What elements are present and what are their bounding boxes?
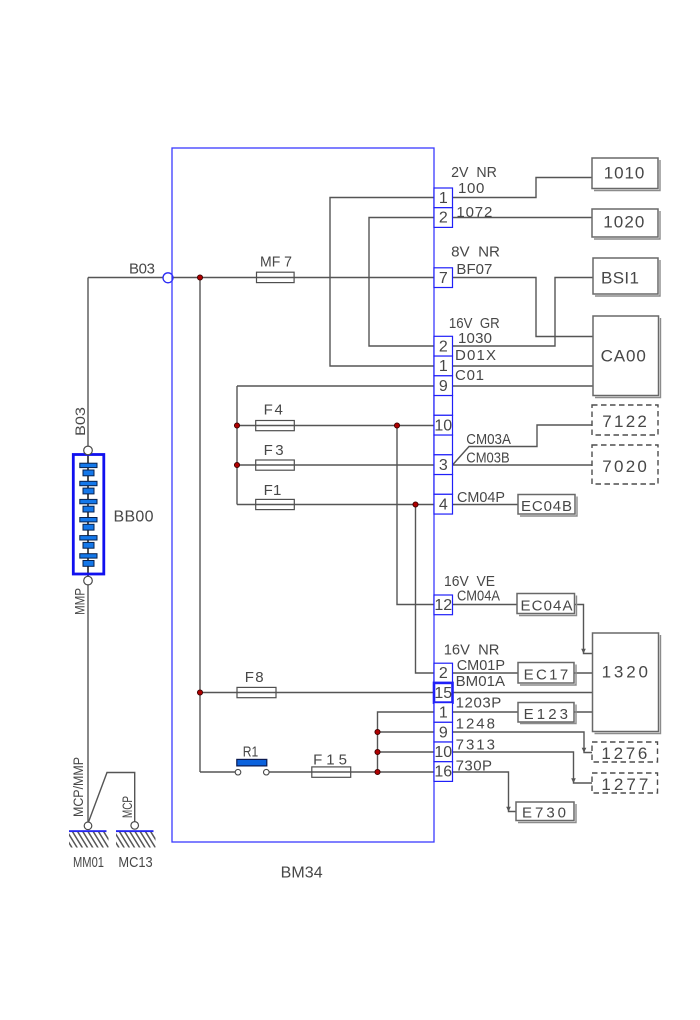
wire C01 left bracket vertical — [236, 386, 238, 505]
svg-text:1030: 1030 — [458, 330, 492, 347]
svg-text:EC04B: EC04B — [521, 498, 572, 515]
pin 9 (1248) — [434, 722, 453, 742]
vertical labels — [70, 407, 135, 818]
svg-text:4: 4 — [439, 497, 448, 514]
svg-text:2: 2 — [439, 338, 448, 355]
ground MM01 terminal — [84, 822, 92, 830]
wire vertical node x200 inside BM34 — [199, 278, 201, 773]
shadow E730 — [518, 804, 576, 823]
svg-text:F4: F4 — [264, 401, 283, 418]
svg-text:730P: 730P — [456, 757, 492, 774]
shadow 1320 — [595, 635, 661, 734]
box EC04A — [517, 594, 575, 614]
wire E123 to 1320 — [574, 711, 593, 713]
svg-text:MCP: MCP — [119, 796, 135, 818]
node BB00 top terminal — [84, 446, 93, 455]
wire EC04A to 1320 — [575, 605, 593, 654]
ground MM01 hatch — [62, 832, 119, 849]
pin 2 (1030) — [434, 336, 453, 356]
svg-text:1010: 1010 — [604, 164, 645, 183]
component BM34 control unit box — [172, 148, 434, 842]
box EC04B — [518, 495, 575, 515]
svg-text:B03: B03 — [72, 407, 88, 436]
fuse MF7 — [257, 272, 295, 282]
wire F1 branch down to pin 2 CM01P — [416, 505, 435, 674]
svg-text:12: 12 — [434, 597, 452, 614]
arrowheads at corner bends — [506, 649, 586, 812]
box CA00 — [593, 316, 659, 396]
box 1276 dashed — [592, 742, 658, 762]
wire 7313 to 1277 — [453, 752, 593, 783]
wire CM04A to EC04A — [453, 604, 518, 606]
wire 100 loop pin1 to D01X — [330, 198, 434, 367]
wire F1 run to pin 4 — [237, 504, 434, 506]
wire CM01P to EC17 — [453, 672, 519, 674]
svg-text:2: 2 — [439, 210, 448, 227]
svg-text:BM01A: BM01A — [456, 673, 505, 690]
fuse F15 — [312, 767, 351, 777]
arrow EC04A to 1320 — [581, 649, 586, 654]
node dot F3 left — [234, 462, 239, 467]
pin empty b — [434, 435, 453, 455]
pin 16 (730P) — [434, 762, 453, 782]
wire BM01A to 1320 — [453, 692, 593, 694]
fuse F1 — [256, 499, 295, 509]
svg-text:MMP: MMP — [72, 588, 88, 615]
svg-text:16: 16 — [434, 764, 452, 781]
box E730 — [516, 802, 574, 821]
shadow E123 — [520, 705, 576, 724]
wire pin1 100 to 1010 — [453, 178, 593, 198]
component BB00 cells — [80, 463, 97, 566]
svg-text:7: 7 — [439, 270, 448, 287]
wire CM03A to 7122 — [453, 425, 593, 465]
pin empty c — [434, 475, 453, 495]
wire F4 run to pin 10 — [237, 425, 434, 427]
svg-text:7313: 7313 — [456, 736, 495, 753]
node dot B03/x200 — [197, 275, 202, 280]
pin 9 (C01) — [434, 376, 453, 396]
equipment labels — [601, 164, 649, 794]
pin 12 (CM04A) — [434, 595, 453, 615]
box 7020 dashed — [592, 445, 658, 484]
node B03 connector circle on BM34 edge — [163, 273, 173, 283]
shadow EC04B — [520, 497, 577, 517]
svg-text:EC04A: EC04A — [521, 597, 573, 614]
box BSI1 — [593, 258, 658, 294]
box 1277 dashed — [592, 773, 658, 793]
svg-text:9: 9 — [439, 378, 448, 395]
svg-text:CM01P: CM01P — [457, 657, 505, 674]
wire C01 to CA00 — [453, 385, 594, 387]
wire 1203P to E123 — [453, 711, 519, 713]
component BB00 internal wire — [87, 450, 89, 578]
box 1320 — [593, 633, 659, 732]
svg-text:15: 15 — [434, 685, 452, 702]
wire EC17 to 1320 — [574, 672, 593, 674]
pin 10 (F4) — [434, 415, 453, 435]
wire pin7 BF07 to CA00 — [453, 278, 594, 337]
wire R1 left lead — [200, 771, 235, 773]
shadow EC17 — [520, 665, 576, 686]
ground MC13 terminal — [131, 822, 139, 830]
wire 730P to E730 — [453, 772, 517, 812]
box EC17 — [518, 663, 574, 684]
svg-text:MCP/MMP: MCP/MMP — [70, 757, 86, 817]
ground MM01 plane — [69, 830, 107, 832]
svg-text:CM04A: CM04A — [457, 588, 500, 605]
svg-text:CM04P: CM04P — [457, 489, 505, 506]
svg-text:2V NR: 2V NR — [451, 164, 497, 181]
svg-text:MC13: MC13 — [118, 854, 152, 871]
arrow 730P to E730 — [506, 807, 511, 812]
svg-text:10: 10 — [434, 417, 452, 434]
svg-text:10: 10 — [434, 744, 452, 761]
wire 1248 to 1276 — [453, 732, 593, 753]
wire 1072 loop pin2 to 1030 — [369, 218, 434, 347]
shadow BSI1 — [595, 260, 660, 296]
ground MC13 hatch — [109, 832, 166, 849]
pin empty a — [434, 396, 453, 416]
svg-text:1072: 1072 — [456, 204, 492, 221]
wire F8 run to pin 15 — [200, 692, 434, 694]
wire CM04P to EC04B — [453, 504, 519, 506]
wire C01 to pin 9 left — [237, 385, 434, 387]
svg-text:9: 9 — [439, 724, 448, 741]
pin 3 (CM03B) — [434, 455, 453, 475]
pin 1 (100) — [434, 188, 453, 208]
shadow CA00 — [595, 318, 661, 398]
pin 1 (1203P) — [434, 703, 453, 723]
node R1 right terminal — [264, 769, 270, 775]
wire F4 branch down to pin 12 — [397, 426, 434, 605]
wire diagonal MM01 to MC13 bridge — [89, 773, 135, 823]
box E123 — [518, 703, 574, 723]
node dot F4 left — [234, 423, 239, 428]
shadow 1020 — [594, 211, 660, 239]
pin numbers — [434, 190, 452, 781]
svg-text:1: 1 — [439, 705, 448, 722]
svg-text:F3: F3 — [264, 442, 284, 459]
node R1 left terminal — [235, 769, 241, 775]
pin 15 (BM01A) highlighted — [434, 683, 453, 703]
svg-text:BF07: BF07 — [456, 261, 492, 278]
box 1020 — [592, 209, 658, 237]
svg-text:1: 1 — [439, 190, 448, 207]
wire CM03B to 7020 — [453, 464, 593, 466]
svg-text:B03: B03 — [129, 261, 155, 278]
shadow EC04A — [519, 596, 577, 616]
pin 10 (7313) — [434, 742, 453, 762]
svg-text:1248: 1248 — [456, 716, 495, 733]
wire B03 horizontal run to MF7 and pin 7 — [88, 277, 434, 279]
svg-text:1020: 1020 — [603, 213, 644, 232]
svg-text:1203P: 1203P — [456, 694, 502, 711]
fuse F8 — [237, 687, 276, 697]
wire F15 bus to pins 1,9,10 — [378, 712, 435, 772]
svg-text:CM03A: CM03A — [466, 431, 511, 448]
box 1010 — [592, 158, 658, 189]
node dot bus pin16 — [375, 769, 380, 774]
box 7122 dashed — [592, 405, 658, 435]
ground MC13 plane — [116, 830, 154, 832]
arrow 1248 to 1276 — [582, 748, 587, 753]
fuse F4 — [256, 421, 295, 431]
node dot F4/pin12 branch — [394, 423, 399, 428]
svg-text:F8: F8 — [245, 669, 264, 686]
svg-text:MF 7: MF 7 — [260, 254, 292, 271]
node dot bus pin9 — [375, 729, 380, 734]
component BB00 border — [73, 455, 104, 575]
svg-text:CM03B: CM03B — [466, 449, 509, 466]
svg-text:100: 100 — [458, 180, 484, 197]
wire 1030 to BSI1 — [453, 278, 594, 347]
wire F3 run to pin 3 — [237, 464, 434, 466]
wire D01X to CA00 — [453, 365, 594, 367]
node dot bus pin10 — [375, 749, 380, 754]
svg-text:1: 1 — [439, 358, 448, 375]
svg-text:EC17: EC17 — [524, 666, 569, 683]
svg-text:D01X: D01X — [455, 347, 496, 364]
svg-text:MM01: MM01 — [73, 854, 104, 871]
svg-text:CA00: CA00 — [601, 347, 646, 366]
svg-text:8V NR: 8V NR — [451, 244, 500, 261]
arrow 7313 to 1277 — [571, 778, 576, 783]
svg-text:3: 3 — [439, 457, 448, 474]
svg-text:BM34: BM34 — [281, 865, 323, 882]
wire R1 to F15 to pin 16 — [269, 771, 434, 773]
pin 4 (CM04P) — [434, 494, 453, 514]
pin 2 (1072) — [434, 208, 453, 228]
node BB00 bottom terminal — [84, 576, 93, 585]
svg-text:2: 2 — [439, 665, 448, 682]
wire pin2 1072 to 1020 — [453, 217, 593, 219]
svg-text:16V NR: 16V NR — [444, 642, 500, 659]
svg-text:R1: R1 — [243, 743, 259, 760]
svg-text:C01: C01 — [455, 367, 484, 384]
svg-text:BB00: BB00 — [114, 509, 154, 526]
node dot F1/CM01P branch — [413, 502, 418, 507]
svg-text:F1: F1 — [264, 482, 282, 499]
pin 7 (BF07) — [434, 268, 453, 288]
pin 1 (D01X) — [434, 356, 453, 376]
fuse F3 — [256, 460, 295, 470]
wire left vertical B03 down to BB00 and ground — [87, 278, 89, 827]
shadow 1010 — [594, 160, 660, 191]
node dot F8 — [197, 690, 202, 695]
svg-text:BSI1: BSI1 — [601, 269, 639, 288]
svg-text:F15: F15 — [313, 751, 347, 768]
component R1 blade — [237, 759, 267, 766]
pin 2 (CM01P) — [434, 663, 453, 683]
